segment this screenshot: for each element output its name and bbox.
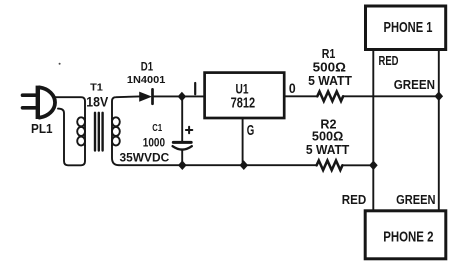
node junction R1 wire/green line xyxy=(435,91,444,101)
wire plug bottom to primary bottom xyxy=(58,109,85,166)
wire U1 ground pin down xyxy=(242,118,244,165)
svg-text:1N4001: 1N4001 xyxy=(127,74,166,86)
svg-text:RED: RED xyxy=(379,54,399,68)
svg-text:GREEN: GREEN xyxy=(394,78,435,92)
svg-text:U1: U1 xyxy=(236,82,249,97)
svg-text:7812: 7812 xyxy=(231,95,256,111)
wire secondary top to diode xyxy=(112,96,139,118)
transformer T1 core xyxy=(95,113,103,151)
PHONE 1 box xyxy=(366,6,446,50)
pin label I xyxy=(194,83,196,94)
wire R1 to green line xyxy=(343,95,439,97)
capacitor C1 xyxy=(173,96,192,165)
svg-text:5 WATT: 5 WATT xyxy=(308,73,352,88)
plug PL1 xyxy=(23,86,56,119)
svg-text:1000: 1000 xyxy=(143,138,165,150)
svg-text:D1: D1 xyxy=(141,62,154,74)
svg-text:PHONE 1: PHONE 1 xyxy=(384,19,433,36)
wire red telephone line vertical xyxy=(372,50,374,211)
svg-text:G: G xyxy=(247,123,255,139)
ground rail wire after R2 xyxy=(342,164,373,166)
plus sign of C1 xyxy=(186,127,192,133)
svg-text:PL1: PL1 xyxy=(31,122,53,136)
svg-text:RED: RED xyxy=(342,193,367,207)
wire U1 output to R1 xyxy=(284,95,317,97)
regulator U1 box xyxy=(205,73,285,118)
svg-text:35WVDC: 35WVDC xyxy=(120,153,170,165)
svg-text:5 WATT: 5 WATT xyxy=(306,142,349,157)
svg-text:0: 0 xyxy=(289,81,296,96)
PHONE 2 box xyxy=(365,211,446,259)
node junction G/ground rail xyxy=(240,160,249,170)
svg-text:T1: T1 xyxy=(90,82,103,94)
svg-text:C1: C1 xyxy=(152,122,162,134)
wire diode to U1 input xyxy=(154,95,205,97)
diode D1 xyxy=(139,89,152,103)
wire plug top to transformer primary xyxy=(53,97,85,118)
node junction R2/red line xyxy=(369,161,378,171)
svg-text:GREEN: GREEN xyxy=(396,193,435,207)
node junction diode/C1 xyxy=(178,92,187,102)
svg-text:PHONE 2: PHONE 2 xyxy=(383,229,433,246)
svg-text:18V: 18V xyxy=(86,94,108,109)
transformer T1 primary winding xyxy=(77,117,85,145)
scan speck xyxy=(59,63,61,65)
ground rail wire xyxy=(119,164,317,166)
wire green telephone line vertical xyxy=(438,50,440,211)
transformer T1 secondary winding xyxy=(112,117,120,145)
node junction C1/ground rail xyxy=(178,160,187,170)
resistor R2 xyxy=(317,161,343,171)
wire secondary bottom to ground rail xyxy=(112,146,119,166)
resistor R1 xyxy=(317,92,343,102)
